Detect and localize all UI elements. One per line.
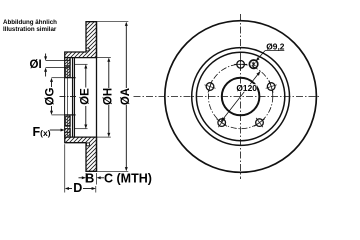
svg-text:Illustration similar: Illustration similar xyxy=(3,26,57,33)
dimension ØH line and arrows xyxy=(107,58,110,138)
bolt hole edge line top upper xyxy=(46,60,71,62)
dimension ØA extension lines xyxy=(97,21,129,23)
bolt hole left lower xyxy=(217,118,227,127)
svg-text:F(x): F(x) xyxy=(33,125,51,139)
bolt hole top xyxy=(234,59,247,71)
mounting face line 2 xyxy=(73,58,75,138)
set screw hole Ø9.2 xyxy=(249,60,257,68)
bolt hole edge line bottom lower xyxy=(65,131,71,133)
dimension ØE extension lines xyxy=(75,63,88,65)
center hole circle xyxy=(222,78,260,116)
mounting face line 1 xyxy=(72,58,74,138)
svg-text:C (MTH): C (MTH) xyxy=(104,172,152,186)
leader Ø9,2 xyxy=(256,51,265,62)
disc outboard flat face line xyxy=(96,22,98,172)
svg-text:Abbildung ähnlich: Abbildung ähnlich xyxy=(3,19,57,26)
dimension ØI line and arrows xyxy=(44,54,47,77)
friction ring section top xyxy=(65,22,97,58)
friction ring section bottom xyxy=(65,137,97,171)
fillet circle bottom xyxy=(86,143,89,146)
bolt hole edge line bottom upper xyxy=(65,124,71,126)
bolt hole left upper xyxy=(205,81,216,93)
fillet circle top xyxy=(86,48,89,51)
dimension ØH extension lines xyxy=(97,57,111,59)
label Ø120 xyxy=(236,84,257,92)
dimension B arrows xyxy=(79,176,105,179)
bolt circle dash-dot xyxy=(208,64,272,128)
svg-text:B: B xyxy=(85,172,94,186)
bore line bottom xyxy=(64,114,75,116)
svg-text:ØE: ØE xyxy=(80,88,92,105)
dimension D line and arrows xyxy=(65,187,96,190)
horizontal centerline xyxy=(134,96,320,98)
hub inner line xyxy=(69,58,71,78)
friction band inner circle xyxy=(192,48,290,146)
vertical centerline xyxy=(240,14,242,179)
flange hatch block B top xyxy=(66,67,71,78)
bolt hole right upper xyxy=(266,81,277,93)
flange hatch block B bottom xyxy=(66,116,71,126)
svg-text:ØH: ØH xyxy=(103,88,115,105)
hub left face line xyxy=(64,58,66,138)
svg-text:Ø120: Ø120 xyxy=(236,83,257,93)
svg-text:ØG: ØG xyxy=(44,88,56,106)
bolt hole edge line top lower xyxy=(46,67,71,69)
svg-text:ØA: ØA xyxy=(120,88,132,105)
outer circle ØA xyxy=(165,21,317,173)
dimension ØE line and arrows xyxy=(84,64,87,128)
dimension line Ø120 across bolt circle xyxy=(221,71,261,122)
dimension B extension lines xyxy=(85,173,87,183)
svg-text:ØI: ØI xyxy=(30,59,42,71)
bore line top xyxy=(64,77,75,79)
dimension D extension lines xyxy=(64,144,66,192)
leader F(x) xyxy=(50,129,65,132)
dimension ØA line and arrows xyxy=(125,22,128,172)
svg-text:D: D xyxy=(73,181,82,195)
flange hatch block A top xyxy=(65,58,71,66)
bolt hole right lower xyxy=(254,118,264,127)
flange hatch block A bottom xyxy=(65,128,71,137)
hub mid line xyxy=(67,58,69,138)
hub centerline xyxy=(60,95,77,97)
dimension ØG line and arrows xyxy=(50,78,64,115)
hat edge circle xyxy=(196,52,284,140)
